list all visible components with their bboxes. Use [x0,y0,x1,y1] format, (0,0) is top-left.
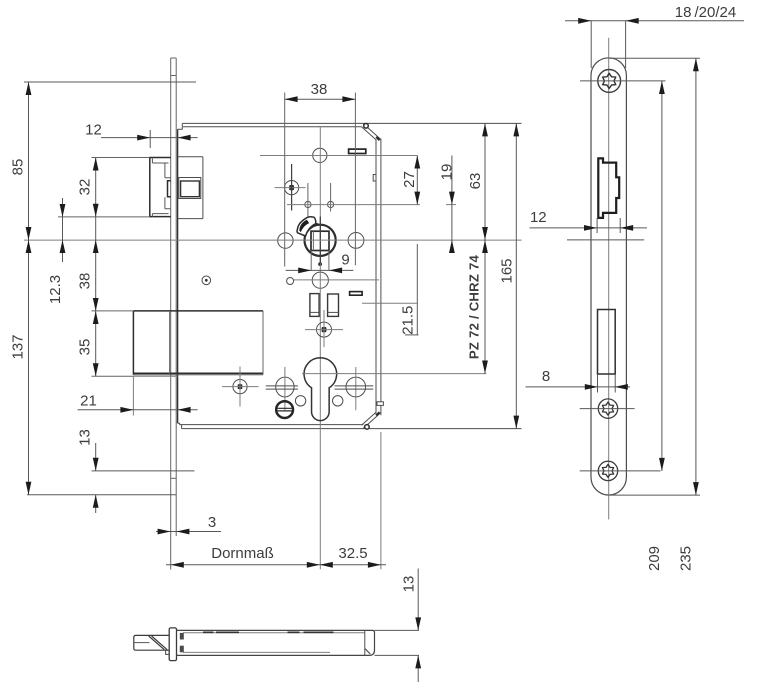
top-right chamfer outer [363,123,381,139]
latch block right edge [202,157,204,219]
top hole centerline [260,155,417,157]
faceplate left edge line [170,58,172,570]
svg-text:165: 165 [499,258,516,283]
latch block top behind plate [178,156,203,158]
deadbolt guide line [133,375,177,377]
faceplate top cap [171,57,177,59]
screw post upper cross vertical [291,164,293,211]
dim 21 line [78,409,198,411]
dim 3 line [156,531,221,533]
lock case left wall [177,129,179,423]
latch guide dark bar upper [180,633,184,640]
bottom view extension bottom [375,654,420,656]
deadbolt front face [132,311,134,375]
follower square inner line [312,231,314,250]
euro cylinder profile [304,358,337,421]
screw post lower-left circle [233,380,247,394]
dim 85 line [28,82,30,240]
spring plate right divider [328,311,339,313]
fixing hole right axis [355,367,357,410]
svg-text:12: 12 [85,122,102,139]
svg-text:235: 235 [678,546,695,571]
latch bottom extension line [58,216,150,218]
guide slot lines right [335,386,374,389]
case top-left step [178,123,183,129]
guide hole left [305,201,311,207]
latch head bottom view [134,635,169,650]
latch head inner step top [152,158,168,164]
latch bevel diagonal left [149,636,165,650]
svg-text:Dornmaß: Dornmaß [211,545,274,562]
cylinder centerline [302,373,486,375]
stop slot upper [349,149,366,153]
follower level reference line [567,239,644,241]
hole below follower [312,272,328,288]
chamfer rivet tick top [376,137,379,140]
follower channel left [310,251,312,271]
faceplate right edge line [175,58,177,536]
svg-text:PZ 72 / CHRZ 74: PZ 72 / CHRZ 74 [467,254,482,359]
dim 12 top tick [149,130,151,148]
svg-text:35: 35 [77,339,94,356]
dim 235 line [695,58,697,495]
svg-text:38: 38 [311,81,328,98]
latch cutout extension right [619,218,621,233]
screw post lower-left cross horizontal [222,386,259,388]
latch cam link line [316,223,320,224]
small hole right of cylinder [333,396,343,406]
svg-text:85: 85 [10,159,27,176]
middle screw torx star [602,402,613,415]
follower channel right [328,251,330,271]
deadbolt top extension line [92,310,134,312]
guide hole right [328,201,334,207]
dim 12 right line [530,227,648,229]
bottom screw hole [598,461,617,480]
top screw hole [598,70,621,93]
deadbolt bottom extension line [92,375,134,377]
chamfer rivet tick bottom [376,412,379,415]
deadbolt top edge [133,310,263,312]
latch cutout extension left [596,218,598,233]
guide hole right stem [330,183,332,212]
dim 27 line [416,156,418,205]
latch bevel vertical upper [165,163,171,178]
follower square hole [311,231,329,250]
dim 209 line [661,81,663,471]
deadbolt front extension for dim 21 [132,376,134,415]
dim 165 line [515,123,517,428]
chamfer rivet top [364,124,369,129]
spring plate right [328,294,339,316]
bottom screw centerline [580,470,661,472]
bottom screw axis reference line [92,470,195,472]
guide hole left stem [307,183,309,230]
svg-text:18 /20/24: 18 /20/24 [675,4,736,21]
dim Dornmass line [166,564,386,566]
follower dot [318,262,322,266]
dim 21.5 reference line [416,244,418,335]
slotted screw head ring [276,401,293,418]
svg-text:32.5: 32.5 [338,545,367,562]
deadbolt bottom edge upper [133,372,263,374]
case inner top line [183,632,365,634]
case right edge outer [380,139,382,416]
latch nose dark edge [168,181,171,197]
svg-text:209: 209 [646,546,663,571]
screw post middle cross horizontal [305,329,343,331]
screw post middle cross vertical [323,310,325,347]
svg-text:3: 3 [208,514,216,531]
small circle left of follower [287,278,294,285]
small hole left of cylinder [295,396,305,406]
right edge notch [373,175,376,182]
extension line left of 38 top [284,93,286,267]
fixing hole right ellipse [346,377,366,397]
faceplate bottom end reference line [27,494,176,496]
dim 13 bottom lines [417,569,419,631]
svg-text:137: 137 [10,334,27,359]
screw post upper circle [285,181,299,195]
guide holes line [287,204,420,206]
bottom-right chamfer inner [362,412,377,425]
screw post middle circle [317,322,332,337]
line through hole below follower [294,279,379,281]
screw post middle torx [322,327,327,332]
svg-text:12: 12 [530,209,547,226]
middle screw centerline [580,408,635,410]
extension line right of 38 top [354,93,356,266]
dim 13 left lines [95,443,97,471]
bottom-right chamfer outer [363,413,381,429]
right edge tab [377,402,383,406]
faceplate top reference line [609,57,700,59]
fixing hole left axis [284,367,286,410]
deadbolt slot [598,310,616,375]
deadbolt slot extension right [614,374,616,393]
latch block bottom [178,218,203,220]
case bottom-left step [178,423,182,428]
svg-text:27: 27 [401,171,418,188]
svg-text:32: 32 [77,179,94,196]
case bottom outer edge [182,428,522,430]
guide holes line tick for dim 19 [446,204,456,206]
dim 8 line [526,386,631,388]
latch guide dark bar lower [180,646,184,653]
hole right of follower [348,233,364,249]
faceplate outline [591,58,626,495]
latch head front face [150,158,171,217]
top-right chamfer inner [362,127,377,140]
case corner tick [365,649,371,655]
latch bevel vertical lower [165,197,171,209]
case slot marks top [203,631,334,633]
deadbolt tail right edge [262,311,264,375]
dim 18-20-24 line [565,20,744,22]
guide slot lines left [266,386,298,389]
latch top extension line [92,157,150,159]
dim 12 top line [101,137,198,139]
faceplate joint upper [171,75,177,77]
top hole circle [313,148,327,162]
latch bevel diagonal right [152,636,168,650]
svg-text:9: 9 [341,252,349,269]
follower hub circle [305,225,336,256]
dim 18-20-24 extension left [590,21,592,68]
latch head mid line [134,642,149,644]
svg-text:13: 13 [401,576,418,593]
latch tail outer box [179,178,201,199]
spring plate left divider [310,311,319,313]
fixing hole left ellipse [276,377,294,397]
svg-text:38: 38 [77,273,94,290]
top screw torx star [603,73,616,88]
slotted screw head slot [278,408,292,411]
stop slot lower [350,292,363,296]
faceplate bottom reference line [609,494,700,496]
latch cutout [598,158,619,218]
latch tail inner box [181,181,200,197]
bottom view extension top [375,629,420,631]
top screw axis reference line [24,81,196,83]
bottom screw torx star [602,464,613,477]
main vertical axis [319,127,321,570]
deadbolt bottom edge lower [133,374,263,376]
svg-text:8: 8 [542,368,550,385]
screw post lower-left cross vertical [239,367,241,407]
case bottom inner edge [180,424,364,426]
reference line y303 [362,302,417,304]
spring plate left [310,294,319,317]
svg-text:13: 13 [77,429,94,446]
middle screw hole [598,399,617,418]
dim 19 line [451,156,453,248]
case top inner edge [183,126,362,128]
top screw centerline [580,80,666,82]
latch notch below [166,650,170,654]
screw post upper torx [289,185,294,190]
svg-text:12.3: 12.3 [47,275,64,304]
screw post upper cross horizontal [275,187,306,189]
dim 21.5 tick [405,334,419,336]
dim 12.3 line [62,198,64,262]
latch cam dark wedge [299,220,309,233]
svg-text:21.5: 21.5 [400,306,417,335]
svg-text:19: 19 [439,164,456,181]
dim 18-20-24 extension right [625,21,627,68]
latch cam lever [297,217,316,236]
small hole with dot [202,276,211,285]
case right edge inner [375,139,377,415]
faceplate joint lower [171,477,177,479]
svg-text:63: 63 [467,173,484,190]
dim 32-38-35 line [95,158,97,377]
chamfer rivet bottom [365,425,370,430]
latch head inner step bottom [152,214,168,217]
case back extension to 32.5 dim [380,432,382,569]
dim 32.5 arrows [320,562,333,568]
dim 63 and PZ line [484,123,486,373]
case inner bottom line [183,651,330,653]
dim 9 line [286,269,354,271]
case top outer edge [182,122,521,124]
hole left of follower [278,233,293,248]
dim 38 top line [285,98,356,100]
case inner right vertical [364,630,366,655]
deadbolt inner line at plate [169,311,171,375]
svg-text:21: 21 [80,393,97,410]
faceplate end bar [169,628,176,661]
horizontal centerline through follower [24,239,522,241]
case bottom view outline [177,630,375,655]
axis dark segment through follower [319,217,321,264]
deadbolt slot extension left [597,374,599,393]
screw post lower-left torx [238,384,243,389]
faceplate vertical axis [608,38,610,520]
dim 137 line [28,240,30,495]
small hole dot [205,279,208,282]
